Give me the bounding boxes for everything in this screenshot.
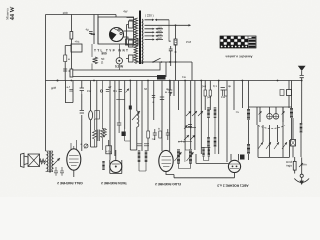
component box left of V2 [106,146,112,154]
svg-text:CBL1 ROEHRE 2: CBL1 ROEHRE 2 [57,181,83,185]
title Minerva 44 W [6,6,17,21]
resistor R9 [147,131,150,138]
svg-text:Minerva: Minerva [6,8,10,20]
resistor R2 [174,39,177,45]
tuning gang right coil [290,108,293,118]
capacitor C4 [80,88,84,91]
main bus [46,80,302,82]
wire gang verticals [258,125,289,157]
tube V3 [159,150,173,171]
wire [195,81,201,164]
resistor near ground [293,161,296,170]
oscillator coil L1 [136,81,138,112]
tube-socket table [220,36,256,48]
resistor R7 zigzag [101,81,105,151]
arrow through TR2 [52,158,60,166]
svg-text:0,1: 0,1 [113,89,117,93]
IF transformer IFT1 [209,108,216,148]
svg-text:An: An [303,163,307,167]
svg-text:griff: griff [51,86,56,90]
connector plug P2 [129,40,134,47]
resistor R8 zigzag to speaker [40,159,46,164]
svg-text:+s: +s [236,110,240,114]
svg-text:+Ta: +Ta [106,150,111,154]
transformer primary top leads [127,18,135,21]
transformer bottom leads / mains [136,62,192,81]
node dot [57,80,59,82]
selector common wire [168,20,170,42]
capacitor C5 [80,111,84,114]
trimmer arrow [132,111,140,120]
tube V1 [67,149,81,170]
wire cap drop [93,15,95,45]
feed chain x=65 [65,46,71,81]
capacitor C6 [117,120,121,133]
capacitor plates above IF can [137,144,150,146]
wire [142,81,154,152]
rectifier frame [98,17,134,44]
resistor R3 [70,69,73,77]
pilot circle [84,144,88,148]
svg-text:+hc: +hc [75,40,80,44]
small coil right [300,123,303,133]
capacitor C3 [169,46,173,66]
wire B+ drop [70,15,72,70]
wire [110,81,119,161]
svg-text:900: 900 [101,52,107,56]
svg-text:( 220 ): ( 220 ) [145,14,154,18]
IF can IFT2 bottom [139,151,146,163]
wire tube leads [124,31,134,39]
speaker SP1 [28,154,40,167]
choke L2 [204,148,209,157]
svg-text:125: 125 [158,30,163,33]
coil left of V2 [102,161,104,170]
svg-text:4W: 4W [123,10,128,14]
trimmer arrows row2 [184,135,195,140]
component near V4 [240,155,245,160]
svg-text:a-f: a-f [108,85,111,89]
svg-text:P.M: P.M [186,40,191,44]
svg-text:50: 50 [144,87,148,91]
wire link2 [178,142,192,151]
svg-text:Ansicht v.unten: Ansicht v.unten [225,55,252,59]
resistor pair [205,81,210,111]
component box right [291,140,296,147]
wire selector vertical [175,25,177,80]
switch S1 [153,58,161,62]
transformer TR1 core [139,11,141,65]
connector plug P3 [129,55,134,62]
resistor pair right of IFT [221,88,225,97]
transformer secondary leads [145,20,189,40]
wire rectifier drop [97,15,99,45]
wire elbow row [185,127,196,129]
capacitor C8 [188,125,192,127]
ground symbol [301,177,303,181]
connector plug P1 [129,21,134,28]
svg-text:100: 100 [63,11,68,15]
under-bus tiny labels [67,84,232,99]
wire [65,81,73,103]
transformer TR1 primary winding [134,18,138,62]
antenna A1 [298,66,306,71]
svg-text:0,1: 0,1 [213,84,217,88]
misc wires bottom [91,147,137,150]
capacitor under bus mid [168,81,172,97]
svg-text:mga: mga [286,164,292,168]
svg-text:TTL TYP WRT: TTL TYP WRT [94,48,128,52]
capacitor C7 [160,97,164,100]
transformer TR1 secondary winding [141,19,144,64]
voltage selector contacts [152,19,191,41]
frame around padders [249,107,292,125]
output transformer TR2 [47,152,48,172]
label box [126,39,139,45]
resistor near antenna below bus [287,90,292,96]
wire top border [46,14,99,16]
gang dashed arc [258,126,285,129]
arrow An [299,163,303,167]
svg-text:4μ: 4μ [228,84,232,88]
terminal circle [300,174,303,177]
svg-text:4μ: 4μ [86,28,90,32]
svg-text:TKEN ROEHRE 2: TKEN ROEHRE 2 [101,181,127,185]
svg-text:+a: +a [152,137,156,141]
svg-text:FLDO ROEHRE 2: FLDO ROEHRE 2 [155,182,181,186]
component dark [122,132,126,137]
wire [125,81,131,151]
fuse F1 on bus [157,75,166,80]
gang arrows [258,142,287,149]
dial lamp LP1 [116,58,122,64]
wire [81,81,83,152]
wire [219,81,243,163]
svg-text:44 W: 44 W [9,6,16,21]
wire [96,81,98,148]
wire gang bottom [258,156,289,158]
resistor R5b box [95,111,100,120]
resistor R1 [70,32,73,40]
tuning gang left coil [247,109,250,120]
svg-text:ABC1 ROEHRE 2 u.3: ABC1 ROEHRE 2 u.3 [217,183,249,187]
resistor R4 zigzag [93,57,98,64]
padder circles [267,114,273,120]
wire left border [45,15,47,152]
wire [90,81,92,148]
wire [162,81,170,152]
tube V4 [228,160,240,172]
caps under TR2 [54,167,64,176]
capacitor C1 box [71,44,82,52]
resistor R6 zigzag [93,119,97,147]
svg-text:1W: 1W [87,89,92,93]
capacitor C10 [166,129,170,140]
rectifier tube U1 [110,28,124,42]
small marks row y~91 [100,90,102,92]
svg-text:150: 150 [158,33,163,36]
tube V2 [110,161,122,173]
wire [174,81,191,151]
capacitor C2 [89,32,94,35]
resistor R10 [159,131,162,138]
trimmer arrows row1 [186,111,203,116]
svg-text:220: 220 [158,37,163,40]
svg-text:a-f: a-f [67,85,70,89]
wire link [125,129,131,141]
coils near V3 [179,150,191,164]
capacitor C9 [153,129,157,140]
resistor R5 oval [89,111,93,120]
heater bus lines [71,62,166,77]
